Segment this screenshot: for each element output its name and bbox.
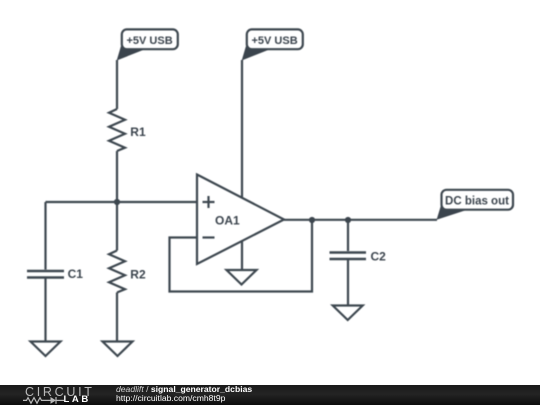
wire: R2 bottom to ground <box>116 293 118 342</box>
wire: +5V flag to op-amp power pin <box>241 60 243 198</box>
capacitor C1 <box>27 271 64 278</box>
CircuitLab logo wordmark CIRCUIT <box>25 386 95 399</box>
svg-text:+5V USB: +5V USB <box>127 35 173 47</box>
ground (C1 branch) <box>31 342 61 357</box>
net flag +5V USB (right) <box>242 29 303 60</box>
ground (op-amp) <box>227 270 257 285</box>
svg-text:R2: R2 <box>130 268 146 282</box>
footer url line <box>116 394 225 403</box>
wire: C2 bottom lead <box>347 260 349 306</box>
wire: C1 top to op-amp + input (horizontal net) <box>46 201 197 203</box>
ground (R2 branch) <box>103 342 133 357</box>
svg-text:DC bias out: DC bias out <box>445 196 509 208</box>
net flag DC bias out <box>437 190 513 220</box>
CircuitLab logo LAB <box>64 395 91 405</box>
node: output junction dot <box>309 217 315 223</box>
svg-text:OA1: OA1 <box>215 214 240 228</box>
net flag +5V USB (left) <box>117 29 178 60</box>
wire: R1 bottom through node to R2 top <box>116 151 118 251</box>
capacitor C2 <box>330 253 367 260</box>
wire: feedback loop output to - input <box>170 220 313 292</box>
wire: C1 bottom lead <box>44 279 46 342</box>
wire: C1 top lead <box>44 202 46 270</box>
ground (C2 branch) <box>333 306 363 321</box>
footer title line <box>116 385 252 394</box>
node: R1/R2/opamp+ junction dot <box>114 199 120 205</box>
wire: C2 top lead <box>347 220 349 251</box>
footer bar <box>0 385 540 405</box>
resistor R2 <box>109 251 125 293</box>
wire: +5V flag to R1 top <box>116 60 118 109</box>
node: C2 junction dot <box>345 217 351 223</box>
svg-text:R1: R1 <box>130 125 146 139</box>
svg-text:+5V USB: +5V USB <box>252 35 298 47</box>
CircuitLab logo schematic squiggle (resistor + diode) <box>23 396 64 405</box>
wire: op-amp V- pin to ground <box>241 241 243 270</box>
wire: op-amp output to DC bias out <box>284 219 437 221</box>
svg-text:C2: C2 <box>371 250 387 264</box>
svg-text:C1: C1 <box>68 267 84 281</box>
op-amp OA1 <box>197 175 284 265</box>
resistor R1 <box>109 109 125 151</box>
